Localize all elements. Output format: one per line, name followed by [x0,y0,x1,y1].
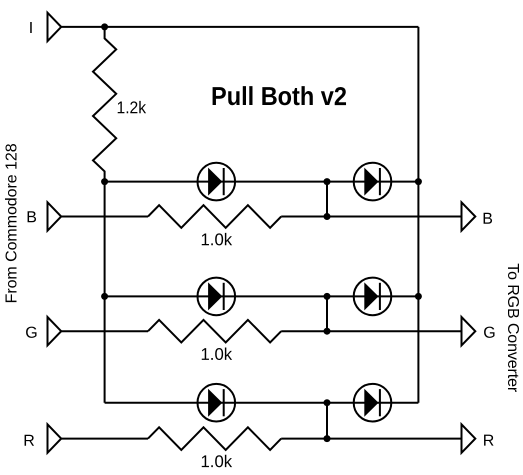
resistor 1.0k (G) [148,320,281,343]
wire G right [281,330,461,332]
output terminal G [462,317,476,345]
wire R diode row [105,402,419,404]
wire B connector [326,182,328,217]
diode D6 [354,384,392,422]
svg-text:1.0k: 1.0k [200,452,232,471]
wire G connector [326,296,328,331]
diode D5 [198,384,236,422]
input terminal R [48,424,62,452]
resistor 1.0k (B) [148,205,281,228]
svg-text:B: B [482,211,493,228]
wire B left [61,216,148,218]
node left bus / G diode row [101,293,108,300]
svg-text:Pull Both v2: Pull Both v2 [211,81,347,111]
node R diode row / connector [324,399,331,406]
diode D1 [198,163,236,201]
wire G diode row [105,295,419,297]
diode D2 [354,163,392,201]
svg-text:G: G [483,325,495,342]
wire I row [61,26,418,28]
wire G left [61,330,148,332]
wire left bus [104,182,106,403]
svg-text:1.0k: 1.0k [200,230,232,249]
wire R connector [326,403,328,439]
svg-text:B: B [26,209,37,226]
wire B right [281,216,461,218]
svg-text:R: R [23,433,35,450]
svg-text:From Commodore 128: From Commodore 128 [3,143,20,303]
svg-text:G: G [25,325,37,342]
diode D3 [198,278,236,316]
svg-text:R: R [483,433,495,450]
input terminal B [48,202,62,230]
node G diode row / right bus [415,293,422,300]
svg-text:To RGB Converter: To RGB Converter [504,263,521,393]
node B wire / connector [324,213,331,220]
input terminal G [48,317,62,345]
resistor 1.2k [93,27,116,182]
node B diode row / connector [324,178,331,185]
wire right bus [417,27,419,403]
node left bus / B diode row [101,178,108,185]
wire B diode row [105,181,419,183]
wire R left [61,438,148,440]
wire R right [281,438,461,440]
diode D4 [354,278,392,316]
input terminal I [48,13,62,41]
node R wire / connector [324,435,331,442]
output terminal B [462,202,476,230]
resistor 1.0k (R) [148,427,281,450]
output terminal R [462,424,476,452]
node G diode row / connector [324,293,331,300]
svg-text:I: I [29,20,33,37]
svg-text:1.0k: 1.0k [200,345,232,364]
svg-text:1.2k: 1.2k [116,98,146,117]
node G wire / connector [324,328,331,335]
node B diode row / right bus [415,178,422,185]
node I-R1 junction [101,23,108,30]
